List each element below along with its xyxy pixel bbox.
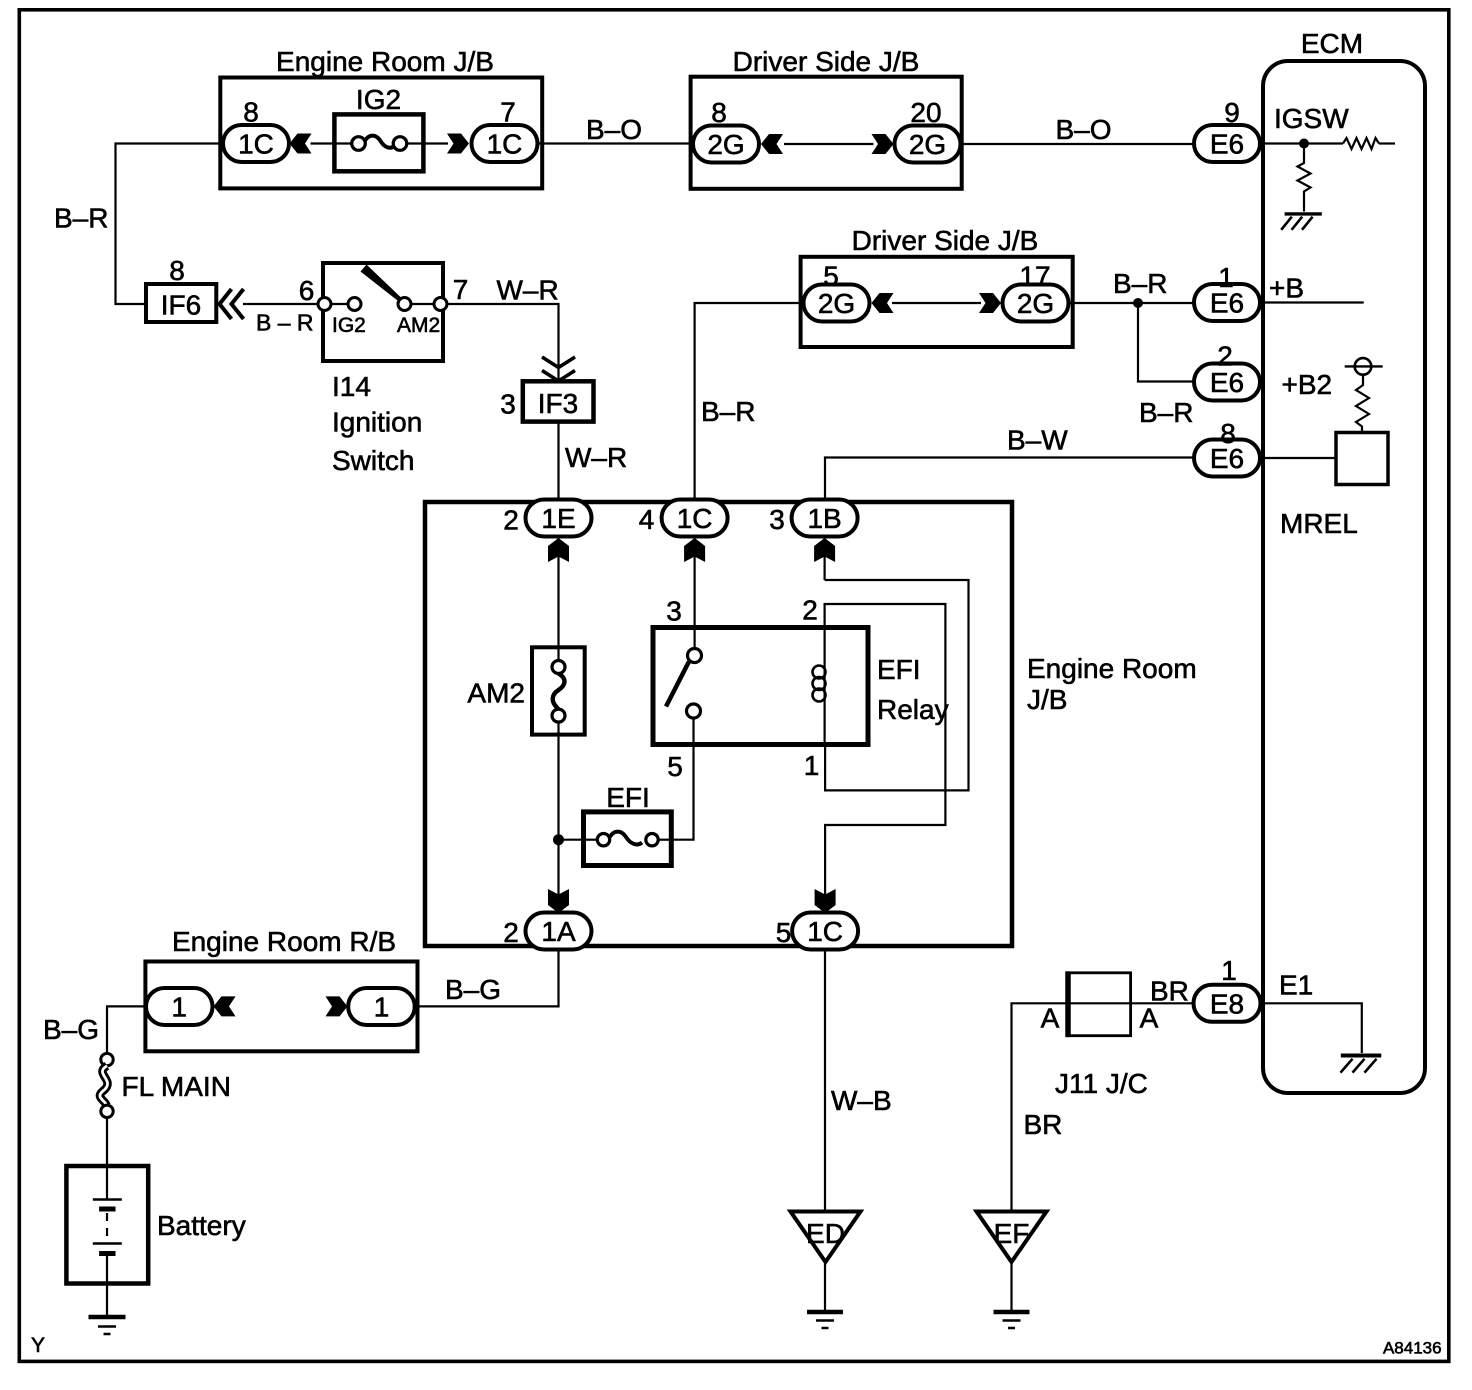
connector oval 1/E6 ECM: [1194, 284, 1260, 321]
wire battery to ground: [106, 1254, 108, 1316]
svg-text:5: 5: [776, 917, 792, 948]
svg-text:20: 20: [910, 97, 941, 128]
battery box: [66, 1166, 148, 1284]
wire route relay pin 2 to 5/1C: [825, 604, 946, 913]
svg-text:1C: 1C: [238, 129, 274, 160]
svg-text:IF6: IF6: [161, 290, 201, 321]
MREL terminal circle: [1355, 358, 1372, 375]
ECM block outline: [1263, 61, 1425, 1093]
svg-text:W–R: W–R: [565, 442, 627, 473]
wire ED triangle to ground: [824, 1262, 826, 1312]
svg-text:Engine Room: Engine Room: [1027, 653, 1197, 684]
EFI relay coil: [813, 628, 826, 744]
svg-text:I14: I14: [332, 371, 371, 402]
wire 8/E6 to MREL block: [1260, 457, 1336, 459]
svg-text:B–G: B–G: [445, 974, 501, 1005]
MREL resistor: [1356, 375, 1369, 433]
wire 8/1C oval to left connector arrow: [290, 142, 297, 144]
wire EFI fuse to AM2 junction dot: [559, 839, 584, 841]
wire +B from 1/E6 into ECM: [1260, 301, 1364, 303]
svg-text:A: A: [1041, 1003, 1060, 1034]
wire between 2G connector arrows lower Driver Side J/B: [892, 302, 981, 304]
svg-text:B–O: B–O: [1056, 114, 1112, 145]
svg-text:1E: 1E: [541, 503, 575, 534]
svg-text:Switch: Switch: [332, 445, 414, 476]
svg-text:2G: 2G: [818, 288, 855, 319]
Engine Room J/B main box: [425, 502, 1012, 946]
wire B-O from 20/2G to 9/E6: [962, 143, 1194, 145]
svg-text:2: 2: [1217, 341, 1233, 372]
ignition switch terminal circles: [318, 298, 447, 311]
svg-text:IG2: IG2: [356, 84, 401, 115]
wire battery top plate: [106, 1168, 108, 1200]
connector arrow right row2: [872, 134, 894, 154]
wire B-G from 1A oval to Engine Room R/B: [415, 949, 559, 1006]
svg-text:1B: 1B: [807, 503, 841, 534]
svg-text:1: 1: [374, 992, 390, 1023]
wire between 2G connector arrows top Driver Side J/B: [784, 143, 874, 145]
svg-text:Driver Side J/B: Driver Side J/B: [733, 46, 920, 77]
svg-text:B–R: B–R: [54, 203, 108, 234]
svg-text:5: 5: [823, 261, 839, 292]
connector oval 8/E6 ECM MREL: [1194, 440, 1260, 477]
Driver Side J/B top box: [691, 77, 962, 189]
battery ground: [89, 1317, 126, 1334]
svg-text:IF3: IF3: [538, 388, 578, 419]
I14 ignition switch box: [323, 263, 443, 361]
black arrow above 2/1A: [548, 889, 569, 913]
svg-text:E8: E8: [1210, 988, 1244, 1019]
IGSW horizontal resistor: [1343, 138, 1379, 149]
connector arrow right row1: [447, 134, 469, 154]
svg-text:7: 7: [453, 274, 469, 305]
connector arrow left row2: [761, 134, 783, 154]
EFI fuse element: [584, 832, 672, 846]
svg-text:3: 3: [769, 504, 785, 535]
svg-text:J/B: J/B: [1027, 684, 1067, 715]
svg-text:5: 5: [667, 751, 683, 782]
svg-text:Y: Y: [31, 1334, 45, 1357]
EFI relay contact lever: [666, 662, 689, 707]
svg-text:B–G: B–G: [43, 1014, 99, 1045]
svg-text:BR: BR: [1150, 976, 1189, 1007]
wire W-R from IF3 to 1E oval: [557, 422, 559, 500]
wire BR from EF ground up to J11 J/C and E8: [1012, 1003, 1194, 1211]
svg-text:1C: 1C: [807, 916, 843, 947]
wire IG2 fuse row inside Engine Room J/B: [311, 142, 335, 144]
IF3 fuse box: [523, 381, 594, 421]
svg-text:1C: 1C: [677, 503, 713, 534]
Engine Room J/B top box: [220, 78, 542, 189]
battery cell plates: [93, 1200, 122, 1254]
svg-text:Engine Room R/B: Engine Room R/B: [172, 926, 396, 957]
svg-text:2G: 2G: [1017, 288, 1054, 319]
junction dot AM2/EFI: [553, 834, 564, 845]
wire B-R branch to 2/E6: [1138, 303, 1194, 382]
Engine Room R/B box: [145, 962, 417, 1052]
connector oval 17/2G Driver Side J/B lower: [1003, 285, 1069, 322]
svg-text:E6: E6: [1210, 367, 1244, 398]
svg-text:BR: BR: [1024, 1109, 1063, 1140]
svg-text:3: 3: [500, 389, 516, 420]
IF3 double chevron: [542, 357, 575, 381]
svg-text:1A: 1A: [541, 916, 576, 947]
connector oval 7/1C Engine Room J/B: [472, 125, 538, 162]
IGSW internal ground: [1281, 214, 1322, 230]
IG2 fuse box: [334, 114, 423, 171]
connector oval 1 Engine Room R/B right: [348, 988, 415, 1025]
MREL driver block: [1336, 433, 1388, 485]
svg-text:B–R: B–R: [1139, 397, 1193, 428]
EF earth ground: [994, 1312, 1030, 1328]
IF6 double chevron: [220, 289, 244, 319]
wire route 1B to relay pin 1: [825, 580, 969, 790]
svg-text:1: 1: [1218, 262, 1234, 293]
IG2 fuse element: [334, 136, 424, 151]
connector arrow left row3: [872, 293, 894, 313]
wire IGSW from 9/E6 into ECM: [1260, 142, 1343, 144]
connector oval 8/2G Driver Side J/B: [693, 126, 759, 163]
svg-text:MREL: MREL: [1280, 508, 1358, 539]
E1 internal ground: [1341, 1056, 1382, 1073]
EF ground triangle: [977, 1212, 1047, 1263]
IGSW pull-down resistor: [1298, 144, 1311, 212]
wire E1 from E8 to ECM internal ground: [1260, 1003, 1362, 1053]
svg-text:EFI: EFI: [606, 782, 650, 813]
svg-text:8: 8: [243, 97, 259, 128]
AM2 fuse box: [532, 647, 585, 734]
svg-text:1: 1: [171, 992, 187, 1023]
svg-text:2G: 2G: [707, 129, 744, 160]
svg-text:Battery: Battery: [157, 1210, 246, 1241]
junction dot B-R near 1/E6: [1133, 298, 1143, 308]
svg-text:J11 J/C: J11 J/C: [1055, 1068, 1148, 1099]
svg-text:E6: E6: [1210, 129, 1244, 160]
connector oval 2/1A Engine Room J/B: [526, 913, 592, 950]
wire B-O from 7/1C to Driver Side J/B: [538, 142, 692, 144]
svg-text:17: 17: [1019, 261, 1050, 292]
svg-text:3: 3: [666, 596, 682, 627]
wire B-W from 8/E6 to 3/1B: [825, 458, 1194, 501]
svg-text:7: 7: [500, 97, 516, 128]
J11 J/C junction connector box: [1068, 973, 1131, 1036]
wire 4/1C oval to relay pin 3: [693, 537, 695, 649]
connector arrow right row3: [979, 293, 1001, 313]
connector arrow right R/B row: [326, 996, 348, 1016]
svg-text:E1: E1: [1279, 970, 1313, 1001]
svg-text:4: 4: [639, 504, 655, 535]
svg-text:+B2: +B2: [1282, 369, 1333, 400]
black arrow below 3/1B: [814, 538, 835, 562]
connector oval 5/1C Engine Room J/B: [792, 913, 858, 950]
svg-text:Driver Side J/B: Driver Side J/B: [852, 225, 1039, 256]
ignition switch lever: [361, 265, 402, 301]
connector oval 2/E6 ECM: [1194, 364, 1260, 401]
connector oval 9/E6 ECM: [1194, 125, 1260, 162]
connector oval 8/1C Engine Room J/B: [223, 125, 289, 162]
svg-text:8: 8: [1220, 418, 1236, 449]
EFI fuse box: [584, 812, 672, 866]
connector arrow left row1: [290, 134, 312, 154]
FL MAIN fusible link: [101, 1053, 113, 1065]
svg-text:Relay: Relay: [877, 694, 949, 725]
svg-text:8: 8: [169, 255, 185, 286]
svg-text:9: 9: [1224, 97, 1240, 128]
connector oval 1/E8 ECM: [1194, 985, 1261, 1022]
svg-text:B–R: B–R: [701, 396, 755, 427]
Driver Side J/B lower box: [801, 257, 1073, 347]
wire 1E oval to AM2 fuse: [557, 537, 559, 648]
svg-text:2: 2: [503, 917, 519, 948]
wire 3/1B oval down: [823, 537, 825, 581]
wire W-R from terminal 7 down to IF3: [447, 304, 559, 381]
ED earth ground: [807, 1312, 843, 1328]
black arrow above 5/1C: [815, 889, 836, 913]
AM2 fuse element: [552, 647, 565, 734]
svg-text:EF: EF: [994, 1218, 1030, 1249]
svg-text:6: 6: [299, 275, 315, 306]
connector oval 1 Engine Room R/B left: [146, 988, 213, 1025]
wire W-B from 5/1C oval to ED ground: [824, 949, 826, 1212]
svg-text:B–O: B–O: [586, 114, 642, 145]
svg-text:A84136: A84136: [1383, 1339, 1442, 1358]
svg-text:1: 1: [1221, 955, 1237, 986]
svg-text:EFI: EFI: [877, 654, 921, 685]
svg-text:FL MAIN: FL MAIN: [122, 1071, 231, 1102]
ED ground triangle: [791, 1212, 861, 1263]
wire EF triangle to ground: [1010, 1262, 1012, 1312]
junction dot IGSW: [1299, 139, 1309, 149]
black arrow below 4/1C: [684, 538, 705, 562]
svg-text:W–B: W–B: [831, 1085, 892, 1116]
svg-text:2: 2: [503, 505, 519, 536]
connector arrow left R/B row: [214, 996, 236, 1016]
connector oval 20/2G Driver Side J/B: [895, 126, 961, 163]
wire B-R from 5/2G down to 4/1C: [695, 303, 801, 500]
svg-text:IGSW: IGSW: [1274, 103, 1349, 134]
svg-text:B – R: B – R: [256, 310, 314, 336]
wire IF6 chevron to ignition switch terminal 6: [243, 303, 318, 305]
wire B-G from R/B left oval to FL MAIN: [107, 1006, 146, 1053]
svg-text:B–R: B–R: [1113, 268, 1167, 299]
svg-text:A: A: [1140, 1003, 1159, 1034]
svg-text:+B: +B: [1269, 273, 1304, 304]
EFI relay contact circles: [688, 649, 702, 663]
svg-text:IG2: IG2: [332, 314, 366, 337]
svg-text:ED: ED: [806, 1218, 845, 1249]
svg-text:ECM: ECM: [1301, 28, 1363, 59]
svg-text:B–W: B–W: [1007, 425, 1068, 456]
J11 J/C thick left edge: [1065, 971, 1071, 1037]
svg-text:Engine Room J/B: Engine Room J/B: [276, 46, 494, 77]
wire inside ignition switch pivot to term7: [411, 303, 434, 305]
svg-text:AM2: AM2: [467, 678, 525, 709]
black arrow below 1E: [548, 538, 569, 562]
wire FL MAIN to battery: [106, 1118, 108, 1167]
wire B-R from 1C(8) left to IF6: [116, 144, 224, 305]
EFI relay box: [653, 628, 868, 745]
wire B-R from 17/2G to 1/E6: [1070, 302, 1195, 304]
wire relay pin 5 down to EFI fuse: [672, 718, 694, 840]
wire AM2 fuse to 1A oval through junction: [557, 735, 559, 914]
connector oval 2/1E Engine Room J/B: [526, 500, 592, 537]
connector oval 4/1C Engine Room J/B: [662, 500, 728, 537]
svg-text:W–R: W–R: [497, 275, 559, 306]
svg-text:1: 1: [804, 750, 820, 781]
wire inside ignition switch term6 to IG2 contact: [331, 303, 348, 305]
wire after IGSW resistor: [1379, 142, 1395, 144]
svg-text:2: 2: [802, 595, 818, 626]
svg-text:8: 8: [711, 97, 727, 128]
connector oval 5/2G Driver Side J/B lower: [804, 285, 870, 322]
connector oval 3/1B Engine Room J/B: [792, 500, 858, 537]
svg-text:AM2: AM2: [397, 314, 440, 337]
IF6 fuse box: [146, 284, 216, 322]
svg-text:Ignition: Ignition: [332, 407, 422, 438]
wire IG2 fuse to right connector arrow: [424, 142, 448, 144]
svg-text:1C: 1C: [487, 129, 523, 160]
svg-text:2G: 2G: [909, 129, 946, 160]
